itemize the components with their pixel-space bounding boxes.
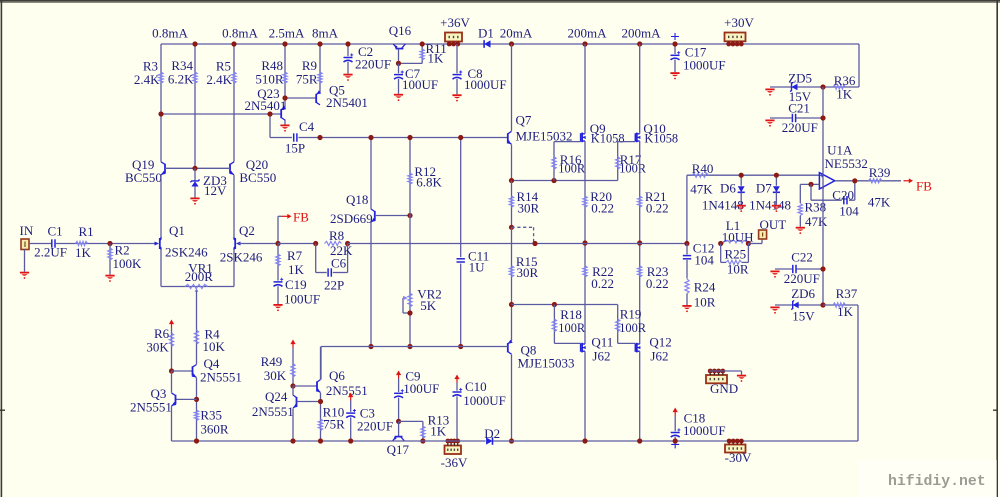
svg-text:0.22: 0.22: [591, 201, 614, 216]
junction: [407, 213, 412, 218]
JFET Q1: [155, 223, 209, 259]
svg-text:220UF: 220UF: [357, 418, 393, 433]
svg-text:GND: GND: [710, 381, 738, 396]
ground: [343, 74, 352, 81]
svg-text:100R: 100R: [558, 162, 586, 176]
svg-text:10R: 10R: [694, 294, 716, 309]
svg-text:6.2K: 6.2K: [168, 72, 194, 87]
svg-text:0.22: 0.22: [591, 276, 614, 291]
junction: [318, 399, 323, 404]
wire: [511, 355, 513, 442]
svg-text:D1: D1: [478, 26, 494, 41]
svg-text:R24: R24: [694, 280, 716, 295]
power port +36V: [440, 15, 470, 46]
resistor R17: [616, 142, 647, 181]
resistor R38: [798, 184, 828, 229]
junction: [509, 225, 514, 230]
junction: [317, 41, 322, 46]
ground: [280, 125, 289, 132]
resistor R11: [420, 41, 447, 66]
capacitor C1: [34, 223, 67, 259]
wire: [278, 243, 316, 245]
svg-text:C1: C1: [48, 223, 63, 238]
potentiometer VR2: [403, 216, 442, 347]
resistor R25: [721, 244, 749, 277]
svg-text:U1A: U1A: [827, 142, 853, 157]
wire: [176, 398, 197, 400]
junction: [282, 41, 287, 46]
svg-text:104: 104: [839, 204, 859, 219]
resistor R23: [638, 243, 669, 344]
svg-text:2.4K: 2.4K: [134, 72, 160, 87]
junction: [684, 241, 689, 246]
svg-text:R1: R1: [79, 224, 94, 239]
wire dashed tap: [512, 227, 534, 243]
resistor R2: [108, 243, 142, 275]
resistor R14: [509, 181, 539, 228]
junction: [192, 41, 197, 46]
wire: [292, 386, 294, 395]
svg-text:22P: 22P: [324, 277, 344, 292]
svg-text:R7: R7: [287, 248, 303, 263]
JFET Q2: [220, 223, 263, 264]
svg-text:15V: 15V: [792, 309, 815, 324]
junction: [345, 41, 350, 46]
ground: [765, 120, 774, 127]
svg-text:1K: 1K: [428, 50, 445, 65]
junction: [317, 135, 322, 140]
wire: [584, 44, 586, 134]
zener diode ZD6: [775, 286, 823, 324]
wire: [584, 351, 586, 441]
svg-text:510R: 510R: [255, 72, 284, 87]
capacitor C19: [274, 277, 321, 306]
transistor Q9: [581, 121, 625, 146]
resistor R36: [823, 73, 859, 102]
capacitor C9: [394, 369, 439, 422]
resistor R6: [146, 326, 173, 371]
capacitor C17: [671, 33, 726, 73]
transistor Q5: [316, 83, 368, 110]
resistor R49: [261, 348, 296, 387]
junction: [820, 266, 825, 271]
capacitor C18: [671, 411, 726, 449]
svg-text:+36V: +36V: [440, 15, 470, 30]
svg-text:6.8K: 6.8K: [416, 174, 442, 189]
svg-text:NE5532: NE5532: [825, 156, 868, 171]
svg-text:2SD669: 2SD669: [330, 211, 373, 226]
svg-text:BC550: BC550: [125, 170, 162, 185]
svg-text:0.8mA: 0.8mA: [152, 26, 188, 41]
svg-text:C22: C22: [791, 249, 813, 264]
resistor R40: [687, 161, 820, 243]
capacitor C2: [344, 44, 392, 74]
svg-text:2N5551: 2N5551: [252, 404, 294, 419]
svg-text:15P: 15P: [285, 141, 305, 156]
transistor Q17: [387, 421, 410, 456]
transistor Q19: [125, 157, 166, 185]
svg-text:0.8mA: 0.8mA: [222, 26, 258, 41]
svg-text:2.5mA: 2.5mA: [269, 26, 305, 41]
svg-text:1K: 1K: [837, 304, 854, 319]
svg-text:hifidiy.net: hifidiy.net: [888, 474, 986, 490]
transistor Q16: [389, 23, 412, 49]
svg-text:1N4148: 1N4148: [749, 198, 791, 213]
resistor R1: [75, 224, 94, 260]
resistor R5: [206, 44, 236, 162]
svg-text:C6: C6: [331, 255, 347, 270]
ground: [737, 205, 746, 212]
ground: [770, 271, 779, 278]
wire: [639, 141, 641, 243]
junction: [509, 302, 514, 307]
svg-text:100UF: 100UF: [284, 291, 320, 306]
resistor R24: [685, 279, 716, 309]
power arrow: [673, 408, 678, 416]
svg-text:C4: C4: [299, 119, 315, 134]
wire: [399, 420, 423, 422]
svg-text:R34: R34: [171, 58, 193, 73]
svg-text:Q6: Q6: [329, 368, 345, 383]
junction: [107, 241, 112, 246]
wire: [196, 291, 198, 365]
junction: [407, 135, 412, 140]
junction: [282, 95, 287, 100]
wire: [321, 346, 508, 348]
svg-text:1000UF: 1000UF: [464, 77, 507, 92]
resistor R34: [168, 44, 197, 168]
junction: [718, 241, 723, 246]
svg-text:0.22: 0.22: [646, 276, 669, 291]
junction: [458, 135, 463, 140]
ground: [452, 94, 461, 101]
svg-text:2SK246: 2SK246: [165, 245, 208, 260]
svg-text:R49: R49: [261, 354, 283, 369]
wire: [348, 243, 687, 245]
svg-text:5K: 5K: [420, 298, 437, 313]
wire: [709, 370, 742, 372]
potentiometer VR1: [161, 250, 234, 292]
power port -30V: [725, 439, 752, 465]
ground: [682, 305, 691, 312]
svg-text:100R: 100R: [619, 321, 647, 335]
zener diode ZD5: [770, 70, 823, 104]
resistor R10: [318, 405, 345, 432]
svg-text:R19: R19: [620, 306, 642, 321]
svg-text:Q2: Q2: [239, 223, 255, 238]
junction: [368, 135, 373, 140]
svg-text:D7: D7: [756, 181, 772, 196]
svg-text:IN: IN: [20, 223, 34, 238]
svg-text:2N5401: 2N5401: [245, 98, 287, 113]
svg-text:2N5551: 2N5551: [326, 383, 368, 398]
svg-text:12V: 12V: [204, 183, 227, 198]
ground: [796, 227, 805, 234]
junction: [420, 41, 425, 46]
wire: [172, 370, 193, 372]
wire: [320, 393, 322, 441]
junction: [552, 302, 557, 307]
svg-text:R8: R8: [329, 228, 344, 243]
resistor R4: [194, 327, 225, 354]
svg-text:1U: 1U: [469, 260, 486, 275]
capacitor C10: [453, 379, 506, 441]
port OUT: [759, 217, 787, 239]
svg-text:30R: 30R: [518, 201, 540, 216]
wire: [584, 141, 586, 243]
wire: [284, 120, 286, 125]
svg-text:220UF: 220UF: [355, 56, 391, 71]
ground: [772, 205, 781, 212]
wire: [857, 305, 859, 441]
transistor Q10: [635, 121, 678, 146]
wire: [493, 440, 858, 442]
svg-text:75R: 75R: [296, 72, 318, 87]
wire: [165, 167, 230, 169]
svg-text:47K: 47K: [690, 182, 713, 197]
op-amp U1A: [819, 142, 867, 189]
svg-text:100R: 100R: [558, 321, 586, 335]
wire: [800, 183, 819, 185]
ground: [273, 304, 282, 311]
svg-text:1K: 1K: [430, 424, 447, 439]
transistor Q18: [330, 192, 376, 226]
resistor R12: [408, 138, 443, 216]
junction: [582, 41, 587, 46]
svg-text:C19: C19: [285, 277, 307, 292]
svg-text:100UF: 100UF: [403, 381, 439, 396]
svg-text:D6: D6: [720, 181, 736, 196]
resistor R37: [823, 286, 858, 319]
wire: [171, 406, 173, 441]
junction: [318, 438, 323, 443]
svg-text:47K: 47K: [805, 214, 828, 229]
wire: [370, 138, 372, 210]
ground: [765, 89, 774, 96]
svg-text:ZD6: ZD6: [791, 286, 815, 301]
junction: [774, 173, 779, 178]
svg-text:FB: FB: [293, 209, 309, 224]
transistor Q12: [635, 335, 671, 364]
resistor R48: [255, 44, 287, 107]
wire: [399, 62, 423, 64]
wire: [56, 243, 156, 245]
resistor R21: [638, 189, 669, 215]
junction: [194, 438, 199, 443]
zener diode ZD3: [190, 168, 227, 198]
transistor Q4: [192, 356, 242, 385]
svg-text:C20: C20: [832, 187, 854, 202]
svg-text:Q18: Q18: [346, 192, 368, 207]
wire: [269, 114, 271, 138]
power arrow: [290, 340, 295, 348]
transistor Q6: [316, 368, 368, 398]
capacitor C7: [394, 63, 438, 93]
junction: [192, 166, 197, 171]
transistor Q20: [229, 157, 276, 185]
junction: [509, 438, 514, 443]
svg-text:75R: 75R: [323, 417, 345, 432]
junction: [368, 344, 373, 349]
svg-text:360R: 360R: [200, 421, 229, 436]
svg-text:10R: 10R: [727, 262, 749, 277]
node FB: [904, 178, 933, 193]
diode D7: [749, 175, 791, 212]
svg-text:30K: 30K: [264, 368, 287, 383]
wire: [639, 351, 641, 441]
junction: [637, 438, 642, 443]
resistor R9: [296, 44, 322, 93]
capacitor C3: [346, 401, 393, 442]
junction: [637, 41, 642, 46]
svg-text:1K: 1K: [75, 245, 92, 260]
capacitor C12: [683, 240, 715, 278]
power port -36V: [441, 439, 468, 470]
wire: [370, 222, 372, 347]
resistor R20: [583, 189, 614, 215]
junction: [532, 241, 537, 246]
wire: [29, 243, 51, 245]
svg-text:2.2UF: 2.2UF: [34, 244, 67, 259]
wire: [398, 49, 400, 64]
wire: [299, 137, 508, 139]
wire: [822, 87, 824, 305]
svg-text:2N5551: 2N5551: [130, 400, 172, 415]
junction: [231, 41, 236, 46]
wire: [512, 180, 618, 182]
capacitor C4: [285, 119, 315, 156]
svg-text:K1058: K1058: [644, 131, 678, 145]
junction: [509, 178, 514, 183]
junction: [458, 344, 463, 349]
svg-text:10K: 10K: [203, 339, 226, 354]
ground: [105, 275, 114, 282]
wire: [160, 175, 162, 238]
svg-text:R39: R39: [869, 165, 891, 180]
svg-text:1000UF: 1000UF: [463, 393, 506, 408]
wire: [285, 97, 316, 99]
wire: [511, 145, 513, 181]
power port +30V: [724, 15, 754, 46]
junction: [420, 438, 425, 443]
svg-text:30K: 30K: [146, 340, 169, 355]
svg-text:200mA: 200mA: [622, 26, 662, 41]
capacitor C8: [453, 44, 507, 94]
capacitor C11: [457, 138, 490, 347]
wire: [293, 385, 317, 387]
junction: [345, 241, 350, 246]
svg-text:ZD5: ZD5: [788, 70, 812, 85]
transistor Q3: [130, 386, 176, 415]
svg-text:47K: 47K: [868, 194, 891, 209]
junction: [582, 438, 587, 443]
svg-text:30R: 30R: [517, 265, 539, 280]
svg-text:-36V: -36V: [441, 455, 468, 470]
junction: [739, 173, 744, 178]
current label 200mA: [568, 26, 608, 41]
wire: [233, 175, 235, 238]
wire: [171, 371, 173, 393]
svg-text:2N5401: 2N5401: [326, 95, 368, 110]
ground: [770, 307, 779, 314]
power port GND: [706, 369, 738, 397]
ground: [737, 375, 746, 382]
svg-text:K1058: K1058: [591, 131, 625, 145]
junction: [194, 397, 199, 402]
diode D6: [702, 175, 745, 212]
junction: [582, 240, 587, 245]
diode D2: [484, 426, 500, 445]
svg-text:R25: R25: [725, 247, 747, 262]
junction: [637, 240, 642, 245]
power arrow: [454, 375, 459, 383]
svg-text:-30V: -30V: [725, 450, 752, 465]
transistor Q23: [245, 86, 287, 120]
svg-text:2N5551: 2N5551: [200, 370, 242, 385]
capacitor C21: [770, 101, 823, 136]
wire: [172, 440, 486, 442]
svg-text:200R: 200R: [185, 269, 214, 284]
node FB: [278, 209, 309, 243]
wire: [161, 43, 484, 45]
svg-text:MJE15033: MJE15033: [518, 356, 575, 371]
svg-text:R40: R40: [692, 161, 714, 176]
junction: [396, 61, 401, 66]
svg-text:2.4K: 2.4K: [206, 72, 232, 87]
junction: [820, 84, 825, 89]
svg-text:Q16: Q16: [389, 23, 412, 38]
transistor Q8: [508, 340, 575, 371]
wire: [24, 250, 26, 272]
svg-text:R35: R35: [200, 407, 222, 422]
wire: [239, 243, 278, 245]
wire: [618, 342, 636, 344]
junction: [820, 302, 825, 307]
svg-text:100UF: 100UF: [402, 77, 438, 92]
svg-text:C21: C21: [788, 101, 810, 116]
current label 200mA: [622, 26, 662, 41]
wire: [618, 141, 636, 143]
svg-text:2SK246: 2SK246: [220, 249, 263, 264]
svg-text:Q7: Q7: [516, 112, 532, 127]
svg-text:220UF: 220UF: [782, 120, 818, 135]
svg-text:100K: 100K: [113, 256, 143, 271]
wire: [835, 180, 901, 182]
svg-text:100R: 100R: [619, 162, 647, 176]
junction: [672, 41, 677, 46]
junction: [673, 438, 678, 443]
power arrow: [348, 393, 353, 401]
junction: [169, 368, 174, 373]
capacitor C6: [316, 243, 353, 292]
wire: [554, 342, 580, 344]
ground: [670, 72, 679, 79]
junction: [158, 111, 163, 116]
resistor R7: [276, 244, 305, 281]
resistor R8: [325, 228, 345, 245]
junction: [267, 111, 272, 116]
wire: [375, 215, 410, 217]
power arrow: [396, 371, 401, 379]
junction: [407, 310, 412, 315]
junction: [808, 182, 813, 187]
transistor Q24: [252, 389, 298, 419]
wire: [512, 304, 618, 306]
junction: [746, 241, 751, 246]
resistor R3: [134, 44, 163, 162]
transistor Q11: [581, 335, 614, 364]
capacitor C22: [775, 249, 823, 286]
